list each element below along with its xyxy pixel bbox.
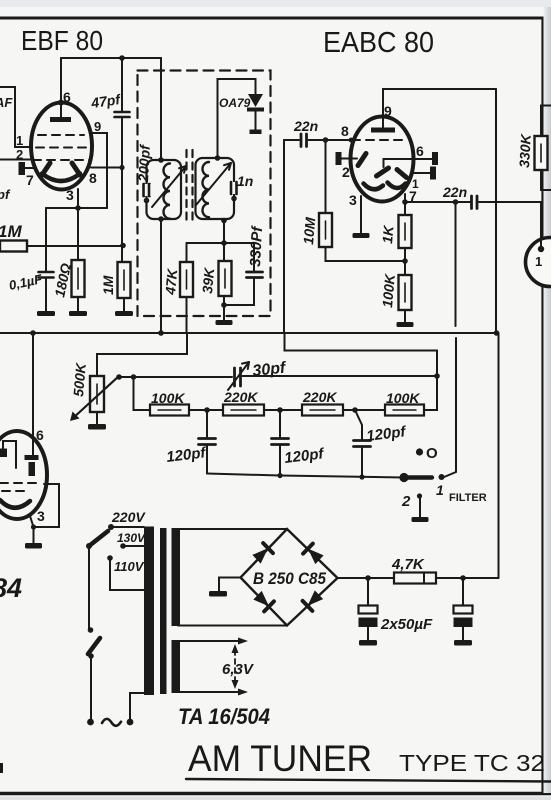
- secondary coil bumps: [203, 162, 209, 217]
- wire AF hook to filter chain: [285, 334, 438, 376]
- svg-text:AF: AF: [0, 95, 13, 110]
- cathode arc EBF80: [42, 174, 80, 182]
- wire filter rail: [207, 474, 404, 478]
- switch arm: [404, 475, 432, 479]
- svg-text:O: O: [426, 445, 438, 462]
- wire right drop to chain: [424, 376, 437, 410]
- resistor R 1M horizontal AVC: [0, 241, 27, 252]
- wire pin6: [413, 158, 433, 160]
- wire 47pf upper: [121, 58, 123, 111]
- wire pin6 output tube from bus: [32, 333, 34, 455]
- node blade contact: [86, 543, 92, 549]
- node primary tank bottom: [158, 216, 164, 222]
- svg-text:200pf: 200pf: [135, 143, 153, 183]
- wire 30pf to right: [243, 375, 438, 377]
- switch contact O dot: [416, 448, 423, 455]
- node wiper: [116, 374, 122, 380]
- pin 1 contact bar: [430, 167, 436, 180]
- label AC tilde: [102, 719, 121, 726]
- svg-text:4,7K: 4,7K: [391, 556, 425, 573]
- tube EABC80 envelope: [351, 117, 414, 202]
- diode plate right EBF80: [72, 163, 80, 175]
- svg-text:6: 6: [63, 89, 71, 105]
- ground 500K: [88, 424, 106, 430]
- wire OA79 cathode stub: [255, 111, 257, 130]
- svg-text:500K: 500K: [70, 362, 89, 398]
- wire pin9 riser: [383, 89, 496, 117]
- capacitor C 120pf b: [272, 439, 289, 445]
- wire diode branch: [218, 79, 256, 158]
- node bus left tube: [30, 330, 36, 336]
- terminal bar OA79: [250, 130, 262, 135]
- node pin8 tube edge: [349, 138, 354, 143]
- wire 1M to ground: [123, 298, 125, 311]
- wire HV bottom to bridge: [178, 625, 287, 627]
- resistor R 220K chain2: [223, 405, 264, 416]
- bridge diode bottom-left: [253, 590, 274, 611]
- node grid next tube: [538, 246, 544, 252]
- scan bottom strip: [0, 797, 551, 800]
- wire chain3: [343, 409, 385, 411]
- ground 180ohm: [69, 311, 87, 316]
- page border bottom: [0, 792, 551, 796]
- svg-text:AM TUNER: AM TUNER: [188, 738, 372, 779]
- resistor R 100K cathode: [399, 275, 412, 310]
- wire 47K top: [186, 243, 188, 262]
- wire cathode to ground output tube: [30, 516, 34, 543]
- capacitor C 0.1uF: [39, 272, 54, 278]
- svg-text:1n: 1n: [237, 173, 253, 189]
- primary tank loop: [147, 160, 182, 219]
- resistor R 4.7K: [394, 573, 436, 584]
- wire secondary tank bottom to 39K: [223, 220, 225, 243]
- svg-text:9: 9: [384, 103, 392, 119]
- internal wire output tube: [3, 441, 16, 468]
- svg-text:100K: 100K: [151, 390, 185, 406]
- transformer LV winding bar: [172, 640, 181, 693]
- capacitor C 50uF b: [462, 578, 464, 605]
- grid dashes output tube: [0, 482, 40, 484]
- svg-text:22n: 22n: [293, 118, 318, 134]
- scan right shadow: [544, 7, 551, 793]
- svg-text:130V: 130V: [117, 531, 146, 545]
- wire screen rail right: [495, 89, 497, 333]
- svg-text:1: 1: [436, 482, 444, 498]
- node filter rail c: [359, 474, 364, 479]
- bridge rectifier diamond: [241, 529, 338, 626]
- svg-text:2: 2: [401, 493, 411, 510]
- wire 120pf c upper: [355, 410, 362, 439]
- node 30pf line right: [434, 373, 440, 379]
- node AF takeoff: [453, 199, 459, 205]
- capacitor C 50uF a: [367, 578, 369, 605]
- grid dashes row2: [36, 147, 88, 149]
- wire detector to 22n input: [284, 139, 299, 141]
- wire 47K 39K 330pf top rail: [187, 243, 255, 271]
- trimmer circle 1n: [232, 197, 236, 201]
- wire volume feed hook: [97, 334, 187, 376]
- page border top: [0, 17, 543, 20]
- scan top strip: [0, 0, 551, 7]
- tube output stage envelope: [0, 431, 47, 519]
- wire anode pin6 riser: [60, 58, 62, 117]
- grid dashes row1: [38, 134, 84, 136]
- internal grid bar output tube: [29, 462, 36, 476]
- triode anode internal: [384, 159, 414, 167]
- wire 39K bottom: [223, 296, 225, 320]
- svg-text:2: 2: [16, 147, 23, 162]
- wire pin7 down: [404, 194, 406, 202]
- switch common contact: [399, 473, 408, 482]
- wire 0.1uF upper: [45, 208, 47, 271]
- svg-text:1: 1: [16, 133, 23, 148]
- wire B+ riser to bus: [498, 333, 500, 578]
- pin 2 contact bar: [336, 152, 342, 165]
- svg-text:6: 6: [36, 427, 44, 443]
- wiper arrow 500K: [72, 376, 119, 419]
- node bus IF drop: [158, 330, 164, 336]
- tuning arrow secondary: [196, 163, 231, 205]
- svg-text:8: 8: [89, 170, 97, 186]
- ground 39K: [216, 320, 233, 325]
- wire grid next tube: [540, 202, 542, 248]
- wire pin7 to 22n output: [405, 201, 470, 203]
- node filter cap a: [365, 575, 371, 581]
- svg-text:7: 7: [26, 172, 34, 188]
- capacitor C 47pf: [115, 112, 130, 117]
- svg-text:OA79: OA79: [219, 96, 251, 110]
- svg-text:EABC 80: EABC 80: [323, 27, 434, 59]
- wire 120pf b upper: [279, 410, 281, 437]
- svg-text:8: 8: [341, 123, 349, 139]
- svg-text:3: 3: [349, 192, 357, 208]
- wire 1K to 100K: [404, 248, 406, 275]
- switch blade mains lower: [88, 638, 100, 654]
- wire bridge plus rail: [338, 577, 499, 579]
- svg-text:1M: 1M: [100, 275, 116, 295]
- diode plate pin2: [358, 154, 366, 166]
- tuning arrow primary: [152, 166, 186, 207]
- resistor R 330K: [535, 136, 548, 170]
- ground bridge: [209, 591, 227, 597]
- svg-text:120pf: 120pf: [365, 423, 408, 445]
- wire top rail EBF80 anode: [61, 57, 161, 59]
- wire 22n output to next stage: [479, 201, 541, 203]
- svg-text:6: 6: [416, 143, 424, 159]
- resistor R 330K stub top: [541, 106, 551, 137]
- wire AF line down from 22n: [283, 140, 285, 332]
- primary coil bumps: [164, 164, 171, 219]
- cathode arc output tube: [0, 500, 30, 508]
- wire cathode rail: [46, 207, 107, 209]
- transformer core bar: [160, 528, 167, 694]
- wire 6.3V bottom: [178, 691, 243, 693]
- svg-text:330Pf: 330Pf: [247, 224, 266, 267]
- ground pin3 EABC: [353, 233, 370, 238]
- grid dashes row3: [33, 159, 90, 161]
- node AVC junction: [120, 243, 126, 249]
- wire 120pf c lower: [361, 447, 363, 478]
- ground 50uF b: [454, 640, 472, 646]
- node 1K bottom: [402, 258, 408, 264]
- capacitor C 120pf c: [354, 441, 371, 447]
- wire down to 100K chain: [134, 377, 151, 410]
- wire 47K bottom to bus: [186, 297, 188, 333]
- anode bar output tube: [25, 455, 39, 460]
- svg-text:pf: pf: [0, 187, 11, 202]
- node pin7: [402, 199, 408, 205]
- svg-text:84: 84: [0, 573, 22, 603]
- core dashes: [185, 150, 187, 225]
- wire pin7: [25, 167, 34, 169]
- wire 10M: [325, 140, 327, 213]
- terminal mains left: [87, 719, 94, 726]
- wire pin3 down: [77, 189, 79, 208]
- secondary tank loop: [196, 158, 235, 219]
- wire chain1: [189, 409, 223, 411]
- wire 47pf lower to pin8 node: [121, 117, 123, 168]
- wire pot to ground: [96, 412, 98, 424]
- diode OA79: [248, 94, 263, 107]
- switch contact 1: [439, 474, 445, 480]
- ground 0.1uF: [37, 311, 55, 316]
- wire pin2 from left edge: [0, 159, 31, 161]
- resistor R 180ohm: [72, 260, 85, 297]
- wire 220V tap: [111, 526, 144, 528]
- wire 10M bottom to cathode junction: [326, 247, 405, 261]
- node primary tank top: [158, 157, 164, 163]
- node cathode rail 180ohm: [75, 205, 81, 211]
- trimmer circle 200pf: [145, 199, 149, 203]
- svg-text:47K: 47K: [162, 267, 180, 296]
- svg-text:220K: 220K: [302, 389, 337, 405]
- feedback loop output tube: [34, 484, 59, 527]
- potentiometer 500K: [90, 376, 104, 412]
- page border right: [541, 18, 543, 791]
- node mains switch mid bottom: [88, 653, 94, 659]
- capacitor C 120pf a: [199, 439, 216, 445]
- svg-text:0,1µF: 0,1µF: [8, 271, 45, 293]
- wire mains left lower: [90, 656, 92, 721]
- svg-text:39K: 39K: [199, 266, 217, 294]
- svg-text:3: 3: [37, 508, 45, 524]
- wire 120pf a upper: [206, 410, 208, 437]
- node 130V tap: [120, 543, 126, 549]
- wire mains right: [130, 693, 144, 722]
- diode plate left EBF80: [42, 163, 50, 175]
- wire 330pf bottom to 39K bottom: [224, 278, 254, 306]
- node 47pf top: [119, 55, 125, 61]
- resistor R 100K chain1: [150, 405, 189, 416]
- wire 330K bottom stub: [541, 170, 551, 190]
- wire 120pf b lower: [279, 445, 281, 476]
- wire 0.1uF to ground: [45, 278, 47, 312]
- capacitor C 30pf plates: [235, 368, 241, 386]
- svg-text:100K: 100K: [379, 273, 398, 309]
- capacitor C 1n plates: [228, 182, 238, 194]
- wire 6.3V top: [178, 640, 243, 642]
- wire pin8 to node: [91, 167, 122, 169]
- wire node to 1M resistor: [121, 168, 123, 263]
- node screen rail bus: [494, 330, 500, 336]
- resistor R 10M: [319, 213, 332, 247]
- wire HV top to bridge: [178, 528, 287, 530]
- svg-text:1: 1: [535, 254, 542, 269]
- svg-text:2: 2: [342, 164, 350, 180]
- wire 120pf a lower: [206, 445, 208, 474]
- switch blade mains upper: [89, 531, 108, 546]
- node pin8 junction: [119, 165, 124, 170]
- svg-text:47pf: 47pf: [89, 91, 122, 111]
- wire AF input to grid pin 1: [0, 87, 31, 147]
- svg-text:TA 16/504: TA 16/504: [178, 704, 270, 729]
- node 120pf a: [204, 407, 210, 413]
- resistor R 220K chain3: [302, 405, 343, 416]
- cathode arc left EABC80: [364, 184, 384, 190]
- wire 180ohm upper: [77, 208, 79, 260]
- IF transformer shield dashed box: [138, 71, 271, 317]
- svg-text:3: 3: [66, 187, 74, 203]
- wire main bus B+: [0, 332, 497, 334]
- ground filter: [412, 517, 429, 522]
- grid dash row EABC80: [352, 139, 404, 141]
- resistor R 47K: [180, 262, 193, 297]
- wire primary tank bottom down to bus: [160, 219, 162, 333]
- anode plate bar EABC80: [371, 128, 395, 133]
- node filter cap b: [460, 575, 466, 581]
- svg-text:220V: 220V: [111, 509, 146, 525]
- svg-text:120pf: 120pf: [165, 444, 208, 466]
- wire 1K top: [404, 202, 406, 215]
- measure arrow 6.3V: [234, 650, 236, 683]
- resistor R 100K chain4: [385, 405, 424, 416]
- node 10M top: [323, 137, 329, 143]
- wire anode rail drop into box: [160, 58, 162, 160]
- node 120pf b: [277, 407, 283, 413]
- node filter rail b: [277, 473, 282, 478]
- resistor R 1K: [399, 215, 412, 248]
- svg-text:1K: 1K: [379, 224, 397, 244]
- wire pin3 to ground: [360, 196, 362, 233]
- wire bridge minus to ground: [219, 578, 241, 592]
- pin 7 contact bar: [19, 162, 26, 175]
- ground 1M: [115, 311, 133, 316]
- wire contact2 to ground: [419, 497, 421, 517]
- ground 50uF a: [359, 640, 377, 646]
- bridge diode top-left: [252, 543, 273, 564]
- wire pin2: [342, 158, 358, 160]
- node cathode junction output tube: [31, 524, 36, 529]
- node tube top: [58, 100, 64, 106]
- bridge diode top-right: [303, 544, 324, 565]
- node 39K top: [221, 240, 227, 246]
- node 120pf c: [352, 407, 358, 413]
- capacitor C 22n input: [301, 134, 307, 147]
- svg-text:FILTER: FILTER: [449, 492, 487, 504]
- capacitor C 22n output: [472, 196, 478, 209]
- bridge diode bottom-right: [303, 590, 324, 611]
- svg-text:B 250 C85: B 250 C85: [253, 569, 326, 588]
- wire 180ohm to ground: [77, 297, 79, 311]
- node 220V tap: [108, 524, 114, 530]
- capacitor C 330pf: [247, 272, 263, 278]
- cathode arc right EABC80: [388, 183, 406, 189]
- wire pin9 down to cathode rail: [92, 133, 107, 208]
- wire AF feed to filter contact1: [455, 202, 457, 326]
- wire AVC line: [27, 245, 123, 247]
- node 110V tap: [107, 555, 113, 561]
- pin 6 contact bar: [432, 152, 438, 165]
- svg-text:TYPE TC 32: TYPE TC 32: [399, 750, 545, 776]
- title underline: [186, 779, 551, 782]
- svg-text:2x50µF: 2x50µF: [380, 616, 433, 633]
- node secondary tank top: [215, 155, 221, 161]
- capacitor C 200pf plates: [144, 184, 150, 196]
- svg-text:120pf: 120pf: [283, 445, 326, 467]
- tube next stage circle: [526, 238, 551, 287]
- node mains switch mid top: [88, 627, 94, 633]
- svg-text:10M: 10M: [300, 216, 318, 245]
- wire mains left upper: [88, 546, 90, 629]
- node chain takeoff: [131, 374, 137, 380]
- transformer HV winding bar: [172, 528, 181, 626]
- anode plate bar EBF80: [50, 117, 71, 122]
- transformer primary winding bar: [144, 527, 154, 696]
- wire pin9 into anode: [382, 117, 384, 128]
- wire pin1: [412, 172, 431, 174]
- svg-text:1M: 1M: [0, 222, 22, 241]
- svg-text:220K: 220K: [223, 389, 258, 405]
- switch contact 2 dot: [417, 493, 422, 498]
- svg-text:9: 9: [94, 119, 101, 134]
- internal contact output tube: [0, 449, 7, 458]
- arrow 30pf: [228, 362, 249, 390]
- ground 100K EABC: [397, 322, 414, 327]
- wire wiper line: [119, 376, 232, 378]
- wire 39K top stub: [223, 243, 225, 261]
- resistor R 39K: [219, 261, 232, 296]
- svg-text:330K: 330K: [516, 133, 534, 168]
- ground output tube: [25, 543, 42, 549]
- diode plate pin1: [397, 170, 407, 178]
- svg-text:6,3V: 6,3V: [222, 661, 255, 678]
- wire 22n to pin8: [309, 139, 352, 141]
- wire 130V tap: [123, 545, 144, 547]
- scan blot left edge: [0, 763, 3, 773]
- wire 110V tap: [110, 558, 144, 590]
- svg-text:100K: 100K: [386, 390, 420, 406]
- wire 100K to ground: [404, 310, 406, 322]
- node 39K 330pf junction: [221, 302, 227, 308]
- svg-text:110V: 110V: [114, 559, 145, 574]
- node secondary tank bottom: [221, 218, 227, 224]
- wire chain2: [264, 409, 302, 411]
- resistor R 1M grid leak vertical: [118, 262, 131, 298]
- svg-text:22n: 22n: [442, 184, 467, 200]
- tube EBF80 envelope: [31, 103, 92, 190]
- terminal mains right: [127, 719, 134, 726]
- svg-text:EBF 80: EBF 80: [21, 25, 103, 56]
